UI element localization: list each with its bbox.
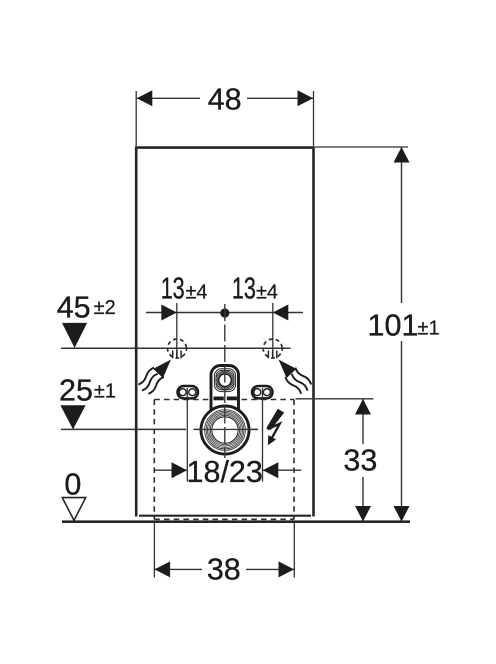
svg-text:33: 33	[343, 444, 377, 478]
crosshair through drain circle (25 level continues)	[200, 428, 258, 430]
dimension 48: arrowheads	[137, 90, 153, 106]
svg-text:±4: ±4	[185, 282, 207, 304]
wall anchor dashed circle (right)	[263, 339, 282, 358]
dimension 13+13: dim line	[146, 312, 303, 314]
svg-text:±1: ±1	[418, 318, 440, 340]
dimension 48: extension lines	[135, 91, 137, 146]
level marker 0 (open triangle)	[62, 498, 85, 521]
svg-text:18/23: 18/23	[187, 455, 263, 489]
wall anchor dashed circle (left)	[168, 339, 187, 358]
water connection oval (left)	[178, 386, 199, 398]
svg-text:13: 13	[161, 272, 185, 306]
center line (vertical, dash-dot)	[224, 304, 226, 458]
dimension 101: dim line	[401, 147, 403, 303]
panel outline	[136, 148, 313, 517]
fitting clamp bars	[214, 396, 224, 400]
svg-text:101: 101	[368, 309, 419, 343]
dimension 13+13: arrowheads	[161, 305, 177, 321]
svg-text:38: 38	[207, 553, 241, 587]
dimension 18/23: arrowheads	[172, 462, 188, 478]
dimension 13+13: extension lines	[176, 303, 178, 357]
svg-text:0: 0	[64, 468, 81, 502]
svg-text:±4: ±4	[256, 282, 278, 304]
level marker triangle 45	[62, 323, 87, 348]
svg-text:±2: ±2	[94, 297, 116, 319]
water supply squiggle arrow (left)	[136, 354, 177, 396]
level marker triangle 25	[60, 405, 85, 429]
dashed extension lines below floor for dim 38	[154, 523, 294, 578]
water connection oval (right)	[252, 386, 273, 398]
dimension 33: dim line	[362, 399, 364, 444]
dimension 13+13: center junction dot	[220, 308, 229, 317]
wall anchor hatch (right)	[268, 351, 276, 359]
dashed outlet rectangle	[154, 400, 294, 520]
dimension 38: dim line	[155, 568, 202, 570]
svg-text:±1: ±1	[94, 381, 116, 403]
level line 25	[61, 428, 186, 430]
drain pipe big circle	[201, 406, 249, 454]
svg-text:48: 48	[208, 83, 242, 117]
dimension 101: arrowheads	[394, 147, 410, 163]
dimension 101: extension line at panel top	[315, 146, 408, 148]
svg-text:45: 45	[57, 291, 91, 325]
svg-text:13: 13	[232, 272, 256, 306]
level line 45	[61, 347, 291, 349]
dimension 18/23: extension lines	[186, 388, 188, 482]
electrical connection lightning bolt	[266, 409, 284, 430]
dimension 33: extension line	[296, 398, 374, 400]
svg-text:25: 25	[59, 374, 93, 408]
dimension 18/23: dim line	[154, 469, 187, 471]
wall anchor hatch (left)	[173, 351, 181, 359]
dimension 33: arrowheads	[355, 399, 371, 415]
water supply squiggle arrow (right)	[272, 354, 313, 396]
dimension 48: dim line	[137, 97, 200, 99]
dimension 38: arrowheads	[155, 561, 171, 577]
floor line	[62, 520, 410, 523]
flush pipe fitting (stadium flange)	[211, 366, 239, 426]
